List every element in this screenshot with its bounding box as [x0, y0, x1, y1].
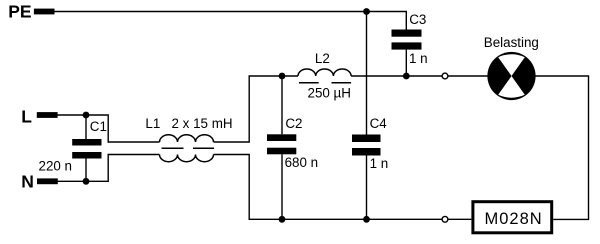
open terminal top [442, 73, 448, 79]
wire choke bottom output riser [214, 155, 443, 220]
svg-text:N: N [21, 172, 34, 192]
wire open terminal to M028N left side [448, 218, 472, 220]
svg-text:250 µH: 250 µH [308, 86, 351, 101]
svg-text:1 n: 1 n [370, 156, 389, 171]
junction top rail / C2 [279, 73, 286, 80]
wire C1 top lead [85, 115, 87, 139]
junction bottom rail / C4 [363, 216, 370, 223]
wire C4 branch from PE [366, 12, 368, 135]
svg-text:C3: C3 [409, 12, 426, 27]
capacitor C3 [392, 30, 422, 50]
svg-text:L2: L2 [315, 51, 330, 66]
lamp Belasting [487, 52, 535, 100]
box M028N [473, 202, 552, 233]
wire PE rail [55, 12, 407, 30]
open terminal bottom [442, 216, 448, 222]
inductor L2 [298, 69, 351, 83]
svg-text:PE: PE [8, 2, 31, 22]
svg-text:C2: C2 [285, 116, 302, 131]
wire choke top output riser [214, 76, 299, 142]
junction L / C1 [83, 112, 90, 119]
svg-text:Belasting: Belasting [484, 35, 539, 50]
terminal PE [34, 9, 55, 15]
svg-text:L1: L1 [145, 116, 160, 131]
wire lamp to M028N right side [536, 76, 589, 219]
svg-text:C4: C4 [370, 116, 388, 131]
wire C3 lower lead [405, 50, 407, 76]
wire N input to choke [56, 155, 160, 182]
wire C1 bottom lead [85, 159, 87, 182]
svg-text:2 x 15 mH: 2 x 15 mH [172, 116, 233, 131]
junction bottom rail / C2 [279, 216, 286, 223]
svg-text:M028N: M028N [485, 210, 543, 228]
terminal N [37, 178, 58, 184]
wire C2 top lead [281, 76, 283, 134]
wire L input to choke [58, 115, 160, 142]
wire top rail after L2 [351, 75, 442, 77]
capacitor C2 [267, 134, 296, 154]
junction top rail / C3 [403, 73, 410, 80]
inductor L1 (common-mode choke) [160, 135, 215, 162]
capacitor C1 [72, 139, 101, 159]
wire open terminal to lamp [448, 75, 488, 77]
svg-text:220 n: 220 n [39, 159, 73, 174]
svg-text:C1: C1 [90, 119, 107, 134]
junction PE / C4 branch [363, 8, 370, 15]
wire C2 bottom lead [281, 154, 283, 219]
junction N / C1 [83, 178, 90, 185]
capacitor C4 [352, 135, 381, 156]
svg-text:L: L [21, 106, 32, 126]
wire C4 lower lead [366, 156, 368, 220]
terminal L [37, 112, 58, 118]
svg-text:680 n: 680 n [285, 155, 319, 170]
svg-text:1 n: 1 n [409, 51, 428, 66]
